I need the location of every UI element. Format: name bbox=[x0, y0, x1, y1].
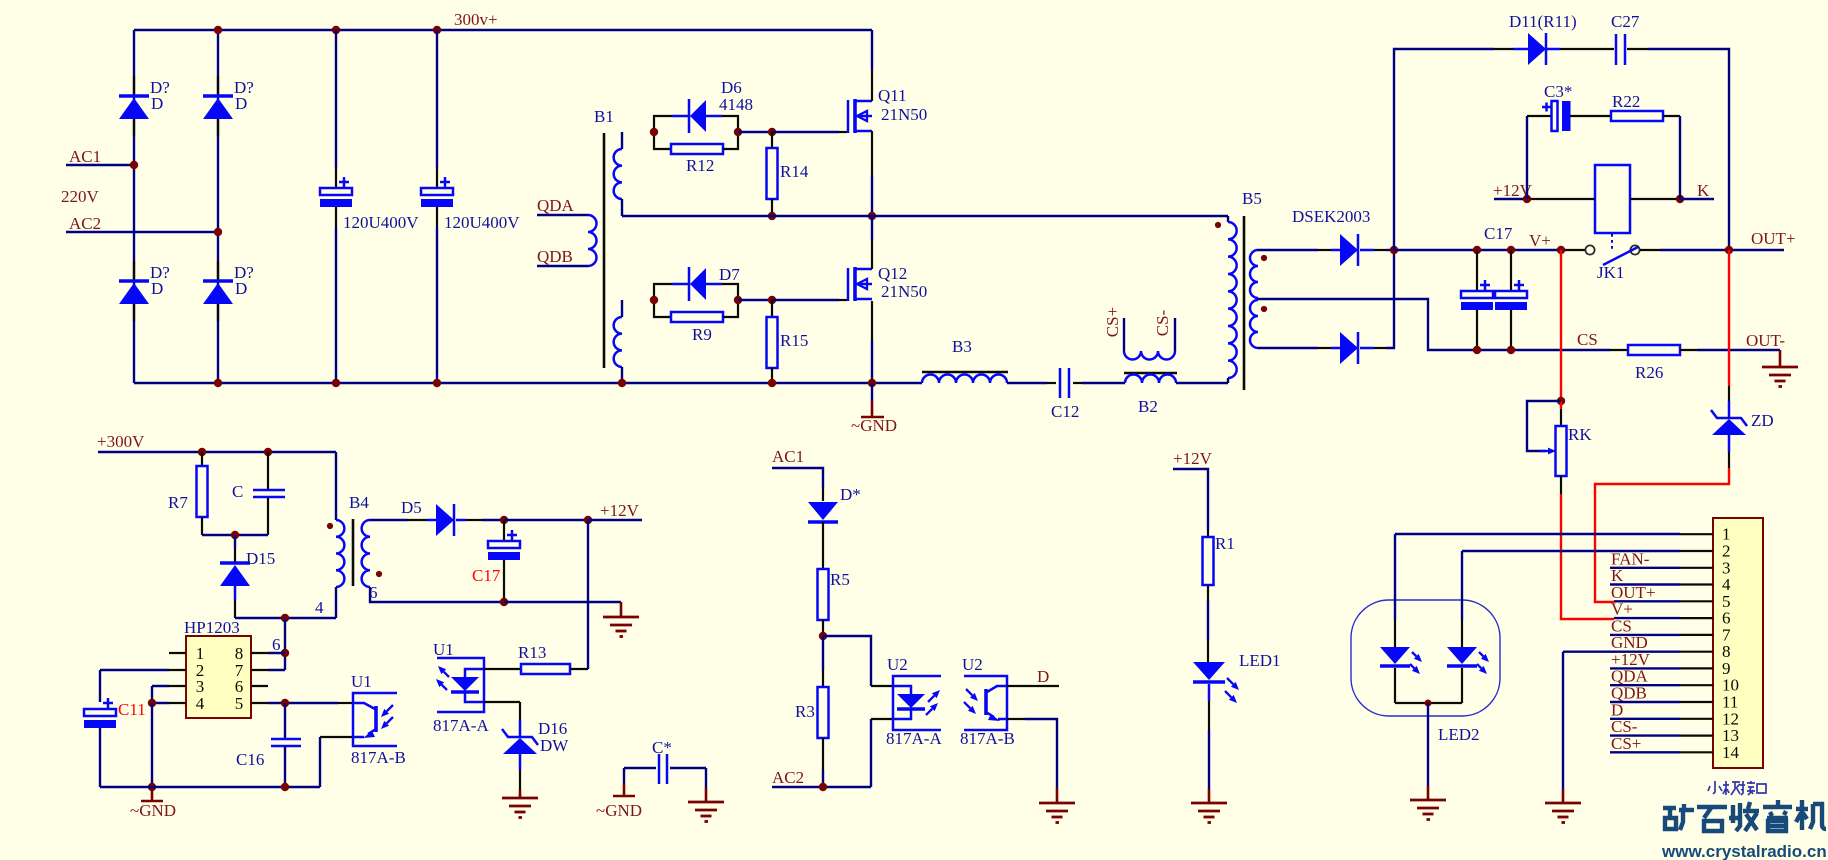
junction B5 secondary upper polarity dot bbox=[1261, 255, 1267, 261]
diode D11(R11) bbox=[1513, 48, 1528, 51]
svg-text:R13: R13 bbox=[518, 643, 546, 662]
svg-text:817A-A: 817A-A bbox=[433, 716, 489, 735]
wire connector pin 7 stub bbox=[1680, 634, 1713, 636]
junction AC2 R3 bbox=[819, 783, 827, 791]
wire U1B emitter to gnd rail bbox=[319, 737, 321, 787]
svg-text:B3: B3 bbox=[952, 337, 972, 356]
wire HP1203 pin4 bbox=[169, 702, 186, 704]
transistor U2 817A-B phototransistor bbox=[987, 686, 1007, 692]
transistor Q12 MOSFET symbol bbox=[847, 268, 850, 301]
svg-text:D: D bbox=[151, 94, 163, 113]
junction B4 secondary polarity dot bbox=[376, 571, 382, 577]
wire pin8 to ground bbox=[1562, 652, 1564, 789]
wire B5 center tap return bbox=[1258, 299, 1610, 350]
svg-text:C17: C17 bbox=[472, 566, 501, 585]
wire AC2 sense bbox=[772, 786, 871, 788]
transformer B5 primary winding bbox=[1227, 216, 1229, 222]
wire rectifier lower output up to V+ bbox=[1374, 347, 1386, 349]
LED1 light arrows bbox=[1227, 678, 1233, 684]
current transformer B2 secondary CS winding bbox=[1123, 318, 1125, 351]
wire Q11 source bbox=[871, 131, 873, 175]
junction Q12 source bottom rail bbox=[868, 379, 876, 387]
resistor R26 bbox=[1610, 349, 1628, 351]
diode LED2 right bbox=[1447, 647, 1477, 664]
svg-text:DW: DW bbox=[540, 736, 569, 755]
svg-text:www.crystalradio.cn: www.crystalradio.cn bbox=[1661, 842, 1827, 860]
svg-text:V+: V+ bbox=[1529, 231, 1551, 250]
wire V+ line bbox=[1394, 249, 1566, 251]
svg-text:R7: R7 bbox=[168, 493, 188, 512]
junction bottom rail x336 bbox=[332, 379, 340, 387]
svg-text:D: D bbox=[235, 94, 247, 113]
capacitor 120U400V second bbox=[436, 30, 438, 168]
svg-text:4: 4 bbox=[315, 598, 324, 617]
wire B4 primary top lead bbox=[335, 452, 337, 520]
relay JK1 contact circles bbox=[1566, 249, 1585, 251]
wire R9 loop right bbox=[723, 300, 738, 317]
label small board interface 小板接口 bbox=[1708, 781, 1766, 795]
svg-text:D*: D* bbox=[840, 485, 861, 504]
wire LED1 to ground bbox=[1208, 684, 1211, 701]
junction rectifier outputs V+ bbox=[1390, 246, 1398, 254]
junction C16 top bbox=[281, 699, 289, 707]
svg-text:AC2: AC2 bbox=[69, 214, 101, 233]
capacitor 120U400V first bbox=[335, 30, 337, 168]
diode U2 817A-A LED bbox=[893, 686, 911, 694]
wire pin9 lead bbox=[1610, 667, 1680, 669]
wire U2B collector net D bbox=[1007, 685, 1025, 687]
junction OUT+ bbox=[1725, 246, 1733, 254]
wire connector pin 3 stub bbox=[1680, 567, 1713, 569]
svg-text:Q12: Q12 bbox=[878, 264, 907, 283]
wire HP1203 pin7 bbox=[251, 669, 268, 671]
wire red RK to connector V+ pin6 bbox=[1561, 494, 1614, 619]
junction B5 primary polarity dot bbox=[1215, 222, 1221, 228]
wire pin12 lead bbox=[1610, 718, 1680, 720]
svg-text:~GND: ~GND bbox=[596, 801, 642, 820]
wire gate1 to Q11 gate bbox=[772, 131, 839, 133]
junction gate1 right bbox=[734, 128, 742, 136]
U2 817A-B light arrows bbox=[966, 689, 972, 695]
diode DSEK2003 upper bbox=[1331, 249, 1340, 252]
svg-text:+12V: +12V bbox=[600, 501, 640, 520]
capacitor C27 bbox=[1615, 34, 1618, 65]
ground aux +12V return bbox=[620, 602, 623, 616]
capacitor C12 bbox=[1047, 382, 1056, 384]
wire HP1203 pin6 stub bbox=[251, 685, 268, 687]
wire red OUT+ drop to ZD bbox=[1728, 250, 1730, 386]
wire R12 loop left bbox=[654, 132, 671, 149]
transistor U1 817A-B phototransistor bbox=[353, 703, 375, 709]
wire left bridge vertical bbox=[133, 30, 135, 383]
svg-text:5: 5 bbox=[235, 694, 244, 713]
capacitor C16 bbox=[284, 703, 286, 739]
junction R14 top bbox=[768, 128, 776, 136]
svg-text:B5: B5 bbox=[1242, 189, 1262, 208]
diode D? bridge at x134 y277 bbox=[133, 261, 135, 279]
resistor R13 bbox=[521, 664, 570, 674]
relay JK1 dashed link bbox=[1611, 234, 1613, 249]
wire connector pin 9 stub bbox=[1680, 667, 1713, 669]
U1 817A-B light arrows bbox=[387, 705, 393, 711]
junction C17 aux bottom bbox=[500, 598, 508, 606]
wire connector pin 2 stub bbox=[1680, 550, 1713, 552]
ground at OUT- bbox=[1779, 350, 1782, 366]
wire red ZD to connector OUT+ pin5 bbox=[1728, 452, 1730, 468]
svg-text:21N50: 21N50 bbox=[881, 105, 927, 124]
wire C3 branch left riser bbox=[1526, 116, 1528, 199]
resistor R12 bbox=[671, 144, 723, 154]
resistor R1 bbox=[1203, 537, 1214, 585]
diode D5 bbox=[426, 519, 436, 522]
potentiometer RK bbox=[1560, 401, 1562, 409]
wire R22 to K riser bbox=[1663, 115, 1680, 117]
svg-text:+300V: +300V bbox=[97, 432, 145, 451]
wire U1A cathode to D16 bbox=[484, 701, 520, 703]
wire second bridge vertical bbox=[217, 30, 219, 383]
svg-text:C*: C* bbox=[652, 738, 672, 757]
wire +300V rail bbox=[98, 451, 336, 453]
junction C top bbox=[264, 448, 272, 456]
svg-text:D: D bbox=[1037, 667, 1049, 686]
svg-text:C17: C17 bbox=[1484, 224, 1513, 243]
transformer B5 secondary winding upper bbox=[1250, 250, 1258, 298]
junction B4 primary polarity dot bbox=[327, 523, 333, 529]
svg-text:QDB: QDB bbox=[537, 247, 573, 266]
svg-text:220V: 220V bbox=[61, 187, 100, 206]
svg-text:4: 4 bbox=[196, 694, 205, 713]
junction R15 top bbox=[768, 296, 776, 304]
inductor B3 bbox=[922, 371, 1008, 374]
wire HP1203 pin5 bbox=[251, 702, 268, 704]
junction +12V takeoff bbox=[584, 516, 592, 524]
ground U2B emitter bbox=[1039, 803, 1075, 823]
wire RK wiper loop bbox=[1527, 401, 1561, 451]
junction top rail x437 bbox=[433, 26, 441, 34]
wire B4 secondary top to D5 bbox=[370, 519, 408, 521]
transformer B1 core bbox=[603, 133, 606, 368]
capacitor C3* bbox=[1552, 101, 1558, 131]
transformer B5 secondary winding lower bbox=[1250, 300, 1258, 348]
svg-text:AC2: AC2 bbox=[772, 768, 804, 787]
diode D6 bbox=[672, 115, 689, 118]
svg-text:817A-B: 817A-B bbox=[960, 729, 1015, 748]
wire R26 to OUT- bbox=[1697, 349, 1780, 351]
resistor R7 bbox=[201, 452, 203, 466]
junction divider mid bbox=[819, 632, 827, 640]
capacitor C17 aux bbox=[503, 520, 505, 541]
junction C17b top bbox=[1507, 246, 1515, 254]
wire U1A anode to R13 bbox=[484, 668, 521, 670]
svg-text:R9: R9 bbox=[692, 325, 712, 344]
junction D15 anode bbox=[231, 531, 239, 539]
svg-text:D7: D7 bbox=[719, 265, 740, 284]
U2 817A-A light arrows bbox=[928, 696, 934, 702]
wire B4 secondary bottom return bbox=[370, 587, 504, 602]
wire LED2 to ground bbox=[1427, 703, 1429, 786]
transformer B4 primary winding bbox=[336, 520, 344, 587]
wire AC2 to U2A cathode bbox=[870, 719, 872, 787]
wire LED2 cathodes join bbox=[1395, 702, 1462, 704]
ground LED2 bbox=[1410, 800, 1446, 820]
connector small-board body bbox=[1713, 518, 1763, 768]
diode D? bridge at x218 y92 bbox=[217, 76, 219, 94]
svg-text:D11(R11): D11(R11) bbox=[1509, 12, 1577, 31]
svg-text:LED1: LED1 bbox=[1239, 651, 1281, 670]
inductor B2 primary bbox=[1124, 372, 1177, 375]
junction RK wiper tap bbox=[1557, 397, 1565, 405]
wire Q12 drain bbox=[871, 216, 873, 240]
transformer B4 core bbox=[352, 519, 355, 586]
wire connector pin2 to LED2 right bbox=[1462, 550, 1680, 552]
watermark 矿石收音机 bbox=[1663, 800, 1826, 831]
svg-text:D5: D5 bbox=[401, 498, 422, 517]
wire +12V to R1 bbox=[1173, 469, 1208, 530]
wire connector pin 13 stub bbox=[1680, 734, 1713, 736]
wire R12 loop right bbox=[723, 132, 738, 149]
svg-text:HP1203: HP1203 bbox=[184, 618, 240, 637]
transformer B1 upper winding bbox=[621, 132, 623, 149]
U1 817A-A light arrows bbox=[444, 672, 449, 677]
wire feedback divider vertical bbox=[284, 618, 286, 670]
resistor R5 bbox=[818, 569, 829, 620]
svg-text:120U400V: 120U400V bbox=[343, 213, 419, 232]
svg-text:D15: D15 bbox=[246, 549, 275, 568]
svg-text:14: 14 bbox=[1722, 743, 1740, 762]
wire aux gnd rail bbox=[100, 786, 320, 788]
wire Q11 drain bbox=[871, 30, 873, 70]
junction V+ to RK bbox=[1557, 246, 1565, 254]
wire secondary bottom to rectifier diode bbox=[1258, 347, 1318, 349]
wire R13 to +12V riser bbox=[570, 668, 588, 670]
wire rail B3 to C12 bbox=[1007, 382, 1047, 384]
svg-text:U1: U1 bbox=[351, 672, 372, 691]
wire +12V to relay coil bbox=[1494, 198, 1527, 200]
wire pin4 lead bbox=[1610, 583, 1680, 585]
wire connector pin1 to LED2 left bbox=[1395, 533, 1680, 535]
wire D11 to C27 bbox=[1560, 48, 1614, 50]
wire D6 loop right bbox=[722, 116, 738, 132]
svg-text:R1: R1 bbox=[1215, 534, 1235, 553]
svg-text:K: K bbox=[1697, 181, 1710, 200]
wire D5 to +12V bbox=[466, 519, 482, 521]
svg-text:817A-B: 817A-B bbox=[351, 748, 406, 767]
svg-text:B1: B1 bbox=[594, 107, 614, 126]
wire relay coil to K bbox=[1630, 198, 1680, 200]
LED2 left light arrows bbox=[1412, 652, 1416, 656]
svg-text:AC1: AC1 bbox=[69, 147, 101, 166]
svg-text:+12V: +12V bbox=[1173, 449, 1213, 468]
diode LED1 bbox=[1193, 662, 1225, 680]
junction gnd rail x152 bbox=[148, 783, 156, 791]
op-amp U1 817A-B bracket bbox=[353, 693, 397, 746]
LED2 right light arrows bbox=[1479, 652, 1483, 656]
wire D6 loop left bbox=[654, 116, 672, 132]
wire pin14 lead bbox=[1610, 751, 1680, 753]
svg-text:CS-: CS- bbox=[1153, 309, 1172, 336]
ground ~GND HP1203 bbox=[151, 787, 154, 800]
svg-text:R3: R3 bbox=[795, 702, 815, 721]
svg-text:LED2: LED2 bbox=[1438, 725, 1480, 744]
wire B2 to B5 primary bbox=[1176, 382, 1228, 384]
wire Q12 source bbox=[871, 301, 873, 340]
svg-text:CS+: CS+ bbox=[1611, 734, 1641, 753]
wire pin8 GND lead bbox=[1563, 651, 1680, 653]
diode D16 zener bbox=[519, 720, 522, 737]
wire middle rail to B5 bbox=[622, 215, 1228, 217]
wire snubber riser left bbox=[1394, 49, 1494, 250]
wire R9 loop left bbox=[654, 300, 671, 317]
svg-text:Q11: Q11 bbox=[878, 86, 907, 105]
diode D? bridge at x218 y277 bbox=[217, 261, 219, 279]
svg-text:JK1: JK1 bbox=[1597, 263, 1624, 282]
wire HP1203 pin3 bbox=[169, 685, 186, 687]
svg-text:D: D bbox=[235, 279, 247, 298]
junction top rail x336 bbox=[332, 26, 340, 34]
junction LED2 cathode bbox=[1425, 700, 1432, 707]
wire R5 to junction bbox=[822, 620, 824, 636]
diode U1 817A-A LED bbox=[465, 669, 484, 677]
resistor R9 bbox=[671, 312, 723, 322]
junction relay +12V side bbox=[1523, 195, 1531, 203]
diode D15 bbox=[234, 535, 236, 549]
ground LED1 bbox=[1191, 803, 1227, 823]
wire connector pin 5 stub bbox=[1680, 600, 1713, 602]
svg-text:RK: RK bbox=[1568, 425, 1592, 444]
wire divider mid to U2A anode bbox=[823, 636, 871, 686]
svg-text:817A-A: 817A-A bbox=[886, 729, 942, 748]
wire LED2 right cathode bbox=[1461, 668, 1463, 703]
wire U2B emitter to ground bbox=[1007, 718, 1025, 720]
transformer B1 lower winding bbox=[621, 300, 623, 317]
junction gate1 left bbox=[650, 128, 658, 136]
capacitor C17a output bbox=[1476, 250, 1478, 291]
wire 300v+ top rail bbox=[134, 29, 872, 31]
svg-text:R26: R26 bbox=[1635, 363, 1663, 382]
junction B5 secondary lower polarity dot bbox=[1261, 306, 1267, 312]
op-amp U2 817A-A bracket bbox=[893, 676, 941, 730]
svg-text:ZD: ZD bbox=[1751, 411, 1774, 430]
svg-text:R15: R15 bbox=[780, 331, 808, 350]
wire AC2 bbox=[66, 231, 218, 233]
svg-text:R14: R14 bbox=[780, 162, 809, 181]
transformer B4 secondary winding bbox=[362, 520, 370, 587]
wire D16 to ground bbox=[519, 770, 521, 790]
wire AC1 bbox=[66, 164, 134, 166]
wire C* right to ground bbox=[705, 768, 707, 788]
diode ZD zener bbox=[1728, 401, 1731, 418]
diode D? bridge at x134 y92 bbox=[133, 76, 135, 94]
wire connector pin 6 stub bbox=[1680, 617, 1713, 619]
junction AC2 bbox=[214, 228, 222, 236]
svg-text:C27: C27 bbox=[1611, 12, 1640, 31]
svg-text:R5: R5 bbox=[830, 570, 850, 589]
wire pin7 lead bbox=[1610, 634, 1680, 636]
svg-text:QDA: QDA bbox=[537, 196, 575, 215]
svg-text:300v+: 300v+ bbox=[454, 10, 498, 29]
wire red V+ drop to RK bbox=[1560, 250, 1562, 401]
diode DSEK2003 lower bbox=[1331, 347, 1340, 350]
svg-text:D: D bbox=[151, 279, 163, 298]
svg-text:~GND: ~GND bbox=[130, 801, 176, 820]
wire pin5 OUT+ lead bbox=[1614, 600, 1680, 602]
relay K1 coil box bbox=[1595, 165, 1630, 233]
wire pin4 to ground bbox=[151, 703, 153, 787]
wire D7 loop left bbox=[654, 284, 672, 300]
svg-text:CS+: CS+ bbox=[1103, 307, 1122, 337]
ground ~GND at half-bridge bbox=[871, 383, 873, 401]
wire pin13 lead bbox=[1610, 734, 1680, 736]
wire connector pin 11 stub bbox=[1680, 701, 1713, 703]
resistor R15 bbox=[771, 300, 773, 317]
wire rectifier upper output bbox=[1374, 249, 1386, 251]
svg-text:C3*: C3* bbox=[1544, 82, 1572, 101]
ground C* right bbox=[688, 802, 724, 822]
svg-text:C: C bbox=[232, 482, 243, 501]
capacitor C* bbox=[624, 767, 656, 769]
wire HP1203 pin8 bbox=[251, 652, 268, 654]
wire connector pin 12 stub bbox=[1680, 718, 1713, 720]
svg-text:~GND: ~GND bbox=[851, 416, 897, 435]
wire R7/C bottom join bbox=[202, 534, 268, 536]
wire D* to R5 bbox=[822, 522, 824, 569]
wire JK1 to OUT+ bbox=[1640, 249, 1660, 251]
ground connector pin8 bbox=[1545, 803, 1581, 823]
junction feedback tap bbox=[281, 614, 289, 622]
junction gate2 right bbox=[734, 296, 742, 304]
svg-text:4148: 4148 bbox=[719, 95, 753, 114]
resistor R3 bbox=[822, 636, 824, 670]
svg-text:U2: U2 bbox=[887, 655, 908, 674]
wire pin6 V+ lead bbox=[1614, 617, 1680, 619]
wire gate2 to R15 bbox=[738, 299, 772, 301]
junction top rail x218 bbox=[214, 26, 222, 34]
svg-text:B4: B4 bbox=[349, 493, 369, 512]
wire pin11 lead bbox=[1610, 701, 1680, 703]
capacitor C11 bbox=[103, 702, 113, 705]
junction C17a top bbox=[1473, 246, 1481, 254]
wire connector pin 14 stub bbox=[1680, 751, 1713, 753]
transistor Q11 MOSFET symbol bbox=[847, 100, 850, 133]
svg-text:OUT+: OUT+ bbox=[1751, 229, 1796, 248]
wire connector pin 10 stub bbox=[1680, 684, 1713, 686]
svg-text:120U400V: 120U400V bbox=[444, 213, 520, 232]
wire gate1 to R14 bbox=[738, 131, 772, 133]
junction R15 bottom bbox=[768, 379, 776, 387]
wire C* left to ~GND bbox=[623, 768, 625, 783]
svg-text:C12: C12 bbox=[1051, 402, 1079, 421]
svg-text:R12: R12 bbox=[686, 156, 714, 175]
capacitor C aux bbox=[267, 452, 269, 489]
wire C27 to OUT+ riser bbox=[1627, 48, 1648, 50]
svg-text:C11: C11 bbox=[118, 700, 146, 719]
potentiometer RK wiper arrow bbox=[1540, 450, 1548, 452]
wire pin10 lead bbox=[1610, 684, 1680, 686]
junction C17a bottom bbox=[1473, 346, 1481, 354]
junction pin8 node bbox=[281, 649, 289, 657]
wire R1 to LED1 bbox=[1207, 585, 1209, 600]
wire C12 to B2 bbox=[1082, 382, 1125, 384]
svg-text:R22: R22 bbox=[1612, 92, 1640, 111]
wire C3 to R22 bbox=[1570, 115, 1611, 117]
svg-text:OUT-: OUT- bbox=[1746, 331, 1785, 350]
svg-text:U2: U2 bbox=[962, 655, 983, 674]
junction C17 aux top bbox=[500, 516, 508, 524]
junction bottom rail x437 bbox=[433, 379, 441, 387]
svg-text:DSEK2003: DSEK2003 bbox=[1292, 207, 1370, 226]
junction AC1 bbox=[130, 161, 138, 169]
wire connector pin 4 stub bbox=[1680, 583, 1713, 585]
